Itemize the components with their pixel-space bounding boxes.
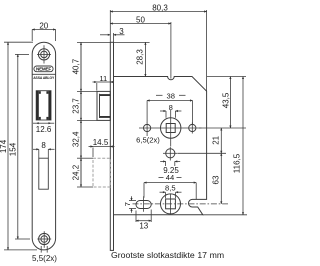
svg-text:Grootste slotkastdikte 17 mm: Grootste slotkastdikte 17 mm	[111, 250, 224, 260]
svg-text:154: 154	[9, 142, 18, 156]
dim 8 (bolt cutout width)	[33, 141, 55, 158]
faceplate edge strip	[110, 42, 113, 250]
dim 3 (faceplate thickness)	[100, 27, 125, 42]
svg-text:8: 8	[169, 103, 173, 112]
svg-text:NEMEF: NEMEF	[36, 67, 51, 72]
svg-text:11: 11	[99, 74, 107, 83]
svg-text:3: 3	[119, 27, 124, 36]
svg-text:6,5(2x): 6,5(2x)	[136, 136, 160, 145]
lock case outline	[114, 77, 207, 215]
dim 174 (left)	[0, 42, 37, 250]
screw hole top	[37, 45, 51, 63]
svg-text:63: 63	[212, 175, 221, 184]
svg-text:28,3: 28,3	[135, 49, 144, 65]
dim 14,5	[89, 138, 115, 157]
dim 80,3 (top)	[110, 3, 206, 91]
dim 11	[93, 74, 115, 91]
right dims: 43,5 / 21 / 63 / 116,5	[178, 77, 247, 215]
svg-text:23,7: 23,7	[71, 98, 80, 114]
svg-text:13: 13	[139, 222, 148, 231]
svg-text:5,5(2x): 5,5(2x)	[32, 254, 57, 263]
dim 44	[144, 173, 196, 199]
left dims column: 40,7 / 23,7 / 32,4 / 24,2	[71, 42, 110, 187]
dim 12.6	[33, 123, 54, 134]
svg-text:7: 7	[123, 202, 132, 206]
svg-text:8: 8	[41, 141, 46, 150]
dim 20 (top)	[32, 21, 55, 41]
svg-text:8,5: 8,5	[165, 184, 176, 193]
svg-text:50: 50	[136, 16, 145, 25]
latch side view	[97, 91, 110, 120]
svg-text:21: 21	[212, 135, 221, 144]
dim 7 (oval height)	[123, 196, 136, 213]
bolt cutout	[39, 158, 49, 189]
svg-text:116,5: 116,5	[232, 153, 241, 173]
svg-text:32,4: 32,4	[71, 131, 80, 147]
dim 5,5(2x)	[32, 246, 57, 263]
svg-text:12.6: 12.6	[36, 125, 52, 134]
svg-text:14.5: 14.5	[93, 138, 109, 147]
dim 13 (oval width)	[136, 210, 151, 231]
svg-text:174: 174	[0, 139, 8, 153]
dim 38	[147, 91, 192, 124]
svg-text:43,5: 43,5	[222, 92, 231, 108]
follower (bottom)	[161, 194, 181, 215]
latch cutout	[36, 91, 51, 120]
left oval slot	[136, 196, 151, 212]
dim 8,5	[160, 184, 182, 199]
dim 154 (left)	[9, 54, 31, 239]
fixing holes 6,5(2x)	[136, 123, 196, 145]
svg-text:20: 20	[39, 21, 48, 30]
screw hole bottom	[37, 231, 51, 248]
follower (top)	[139, 110, 202, 147]
svg-text:40,7: 40,7	[71, 58, 80, 74]
dim 50	[110, 16, 171, 79]
dim 28,3	[114, 42, 150, 76]
faceplate outline	[32, 42, 55, 250]
svg-text:38: 38	[166, 91, 174, 100]
svg-text:44: 44	[166, 173, 174, 182]
cylinder hole 9,25	[160, 147, 180, 175]
dim 8 (follower square)	[160, 103, 181, 118]
NEMEF logo	[32, 66, 55, 80]
svg-text:24,2: 24,2	[71, 164, 80, 180]
dashed deadbolt (hidden)	[93, 158, 110, 187]
bottom centerline (dash-dot)	[133, 203, 229, 205]
svg-text:80,3: 80,3	[152, 3, 168, 12]
svg-text:ASSA ABLOY: ASSA ABLOY	[33, 76, 55, 80]
